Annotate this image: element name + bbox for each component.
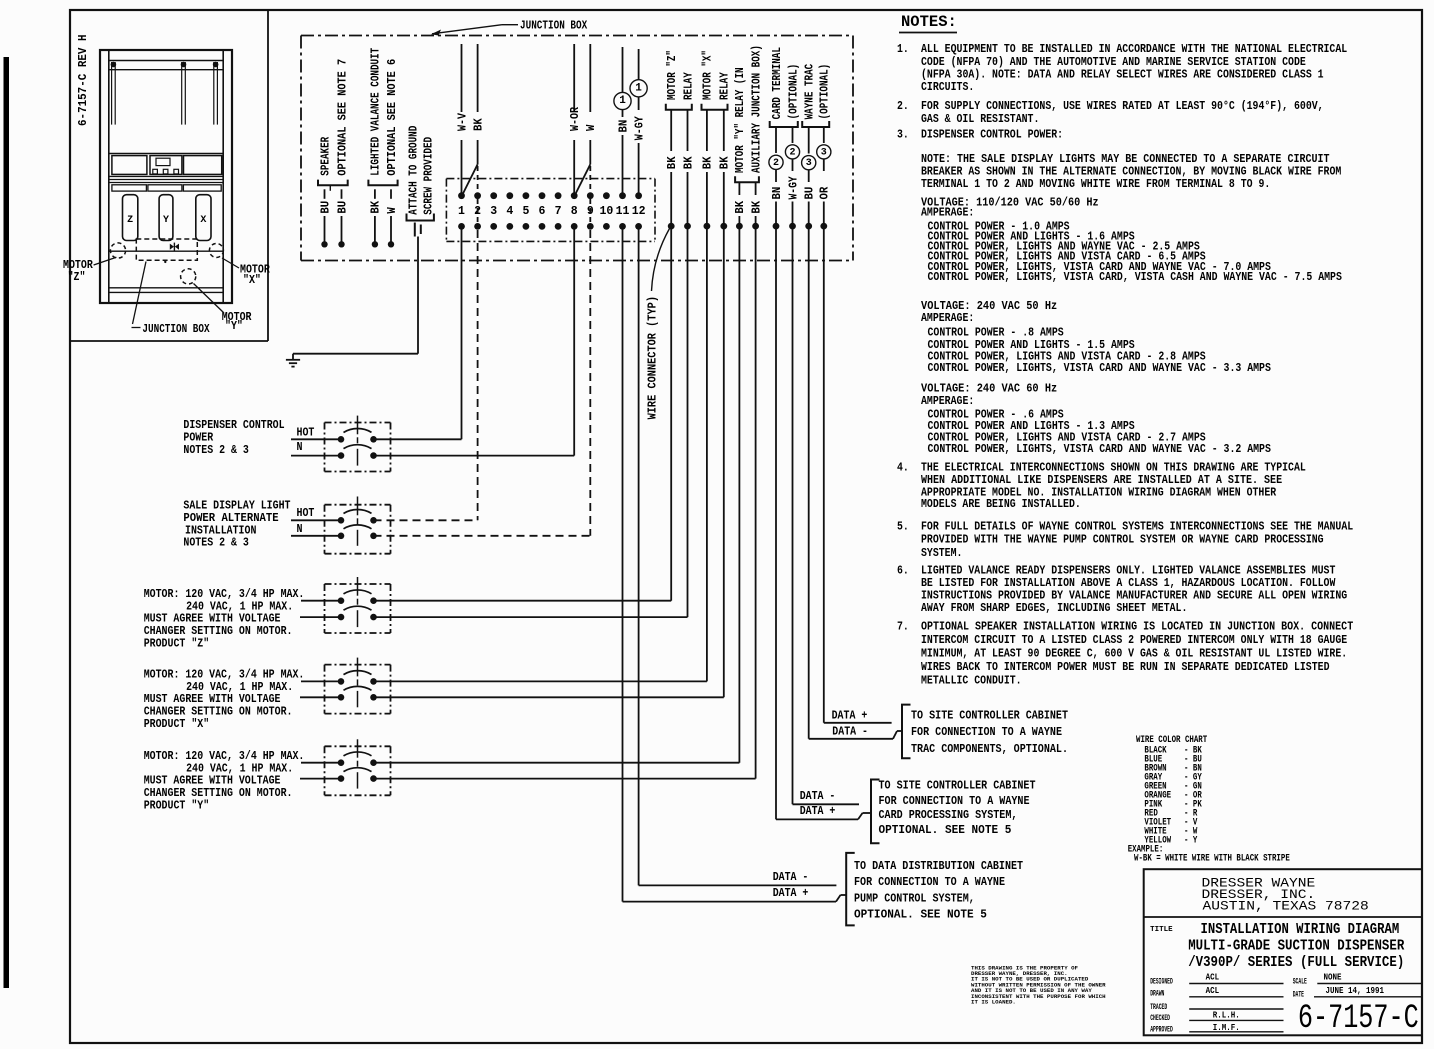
cabinet mid line bbox=[109, 250, 223, 252]
svg-text:CONTROL POWER - .8 AMPS: CONTROL POWER - .8 AMPS bbox=[928, 326, 1064, 339]
switch motor product Z bbox=[325, 583, 391, 585]
svg-text:I.M.F.: I.M.F. bbox=[1213, 1023, 1240, 1033]
wire motor X in 1 bbox=[301, 680, 341, 682]
terminal strip TB bbox=[446, 178, 655, 180]
svg-text:AUXILIARY JUNCTION BOX): AUXILIARY JUNCTION BOX) bbox=[750, 45, 763, 173]
svg-text:DATA -: DATA - bbox=[832, 726, 868, 739]
svg-text:IT IS LOANED.: IT IS LOANED. bbox=[971, 999, 1016, 1006]
svg-text:Y: Y bbox=[163, 215, 169, 226]
svg-text:6-7157-C: 6-7157-C bbox=[1298, 1000, 1419, 1038]
svg-text:MOTOR "X": MOTOR "X" bbox=[702, 50, 715, 100]
svg-text:240 VAC, 1 HP MAX.: 240 VAC, 1 HP MAX. bbox=[186, 681, 293, 694]
svg-text:BK: BK bbox=[750, 201, 763, 214]
hose hanger rods bbox=[111, 62, 113, 125]
svg-text:CONTROL POWER, LIGHTS, VISTA C: CONTROL POWER, LIGHTS, VISTA CARD, VISTA… bbox=[928, 271, 1342, 284]
svg-text:BE LISTED FOR INSTALLATION ABO: BE LISTED FOR INSTALLATION ABOVE A CLASS… bbox=[921, 577, 1335, 590]
wire W-GY to terminal 12 with tag 1 bbox=[638, 49, 640, 80]
svg-text:W-OR: W-OR bbox=[569, 107, 582, 131]
terminal 4 bbox=[506, 192, 513, 199]
svg-text:1: 1 bbox=[458, 205, 465, 218]
svg-text:BN: BN bbox=[617, 120, 630, 133]
wire ground bbox=[417, 237, 419, 354]
svg-text:INSTALLATION WIRING DIAGRAM: INSTALLATION WIRING DIAGRAM bbox=[1201, 922, 1400, 938]
svg-text:FOR SUPPLY CONNECTIONS, USE WI: FOR SUPPLY CONNECTIONS, USE WIRES RATED … bbox=[921, 100, 1324, 113]
svg-text:FOR CONNECTION TO A WAYNE: FOR CONNECTION TO A WAYNE bbox=[911, 725, 1062, 739]
switch sale display light bbox=[325, 504, 391, 506]
svg-text:/V390P/ SERIES (FULL SERVICE): /V390P/ SERIES (FULL SERVICE) bbox=[1188, 955, 1404, 971]
svg-text:DATA +: DATA + bbox=[773, 887, 809, 900]
svg-text:"Z": "Z" bbox=[68, 271, 86, 284]
svg-text:BK: BK bbox=[719, 156, 732, 169]
svg-text:ATTACH TO GROUND: ATTACH TO GROUND bbox=[407, 126, 420, 215]
svg-text:W-GY: W-GY bbox=[787, 176, 800, 199]
svg-text:VOLTAGE: 240 VAC 60 Hz: VOLTAGE: 240 VAC 60 Hz bbox=[921, 383, 1057, 396]
svg-text:MULTI-GRADE SUCTION DISPENSER: MULTI-GRADE SUCTION DISPENSER bbox=[1188, 939, 1404, 955]
wire BK motor Z relay 1 bbox=[670, 110, 672, 151]
switch motor product Y bbox=[325, 745, 391, 747]
svg-text:5: 5 bbox=[522, 205, 529, 218]
svg-text:MUST AGREE WITH VOLTAGE: MUST AGREE WITH VOLTAGE bbox=[144, 775, 281, 788]
svg-text:NONE: NONE bbox=[1324, 973, 1342, 983]
svg-text:INTERCOM CIRCUIT TO A LISTED C: INTERCOM CIRCUIT TO A LISTED CLASS 2 POW… bbox=[921, 634, 1347, 647]
svg-text:JUNCTION BOX: JUNCTION BOX bbox=[142, 323, 209, 336]
svg-text:MOTOR: MOTOR bbox=[63, 259, 93, 272]
terminal 7 bbox=[555, 192, 562, 199]
wire pump data minus terminal 12 bbox=[638, 226, 640, 885]
svg-text:WIRE COLOR CHART: WIRE COLOR CHART bbox=[1136, 734, 1207, 745]
wire trac data plus bbox=[823, 226, 825, 723]
wire alternate dashed terminal 9 bbox=[589, 166, 591, 192]
svg-text:6: 6 bbox=[539, 205, 546, 218]
wire dispenser hot in bbox=[291, 438, 341, 440]
wire terminal1 to dispenser hot bbox=[461, 226, 463, 439]
svg-text:SALE DISPLAY LIGHT: SALE DISPLAY LIGHT bbox=[183, 499, 290, 512]
wire BK to terminal 1 bbox=[477, 44, 479, 112]
svg-text:CIRCUITS.: CIRCUITS. bbox=[921, 81, 974, 94]
svg-text:DATE: DATE bbox=[1293, 991, 1304, 1000]
svg-text:ACL: ACL bbox=[1206, 973, 1220, 983]
wire motor X relay run 1 bbox=[706, 226, 708, 681]
wire BK motor Y relay 1 bbox=[738, 182, 740, 195]
svg-text:3: 3 bbox=[806, 158, 812, 169]
ground symbol bbox=[286, 359, 300, 361]
svg-text:DATA +: DATA + bbox=[800, 805, 836, 818]
svg-text:BK: BK bbox=[682, 156, 695, 169]
svg-text:(OPTIONAL): (OPTIONAL) bbox=[819, 64, 832, 120]
svg-text:2: 2 bbox=[789, 147, 795, 158]
svg-text:LIGHTED VALANCE CONDUIT: LIGHTED VALANCE CONDUIT bbox=[370, 48, 383, 176]
wire motor X in 2 bbox=[300, 696, 341, 698]
svg-text:MOTOR: 120 VAC, 3/4 HP MAX.: MOTOR: 120 VAC, 3/4 HP MAX. bbox=[144, 669, 305, 682]
svg-text:R.L.H.: R.L.H. bbox=[1213, 1011, 1240, 1021]
svg-text:TITLE: TITLE bbox=[1150, 926, 1173, 934]
svg-text:NOTE: THE SALE DISPLAY LIGHTS: NOTE: THE SALE DISPLAY LIGHTS MAY BE CON… bbox=[921, 153, 1330, 166]
svg-text:HOT: HOT bbox=[297, 507, 315, 520]
wire alternate dashed terminal 2 bbox=[477, 166, 479, 192]
svg-text:7.: 7. bbox=[897, 620, 909, 633]
wire motor Z in 2 bbox=[300, 616, 341, 618]
wire motor Z in 1 bbox=[301, 600, 341, 602]
terminal 6 bbox=[539, 192, 546, 199]
wire terminal8 to dispenser neutral bbox=[573, 226, 575, 455]
svg-text:W-V: W-V bbox=[456, 113, 469, 131]
svg-text:CHANGER SETTING ON MOTOR.: CHANGER SETTING ON MOTOR. bbox=[144, 625, 293, 638]
wire dispenser neutral in bbox=[291, 455, 341, 457]
svg-text:BK: BK bbox=[702, 156, 715, 169]
svg-text:INSTALLATION: INSTALLATION bbox=[185, 524, 256, 537]
wire BU wayne trac tag 3 bbox=[808, 127, 810, 154]
svg-text:Z: Z bbox=[127, 215, 133, 226]
wire motor Y in 2 bbox=[300, 778, 341, 780]
wire BN to terminal 11 with tag 1 bbox=[622, 47, 624, 92]
wire pump data plus terminal 11 bbox=[622, 226, 624, 901]
svg-text:INSTRUCTIONS PROVIDED BY VALAN: INSTRUCTIONS PROVIDED BY VALANCE MANUFAC… bbox=[921, 590, 1347, 603]
svg-text:1: 1 bbox=[635, 83, 642, 95]
svg-text:240 VAC, 1 HP MAX.: 240 VAC, 1 HP MAX. bbox=[186, 762, 293, 775]
svg-text:4.: 4. bbox=[897, 462, 909, 475]
svg-text:NOTES 2 & 3: NOTES 2 & 3 bbox=[183, 444, 249, 457]
svg-text:PRODUCT "Z": PRODUCT "Z" bbox=[144, 637, 210, 650]
svg-text:OPTIONAL SEE NOTE 7: OPTIONAL SEE NOTE 7 bbox=[336, 59, 349, 176]
wire BN card terminal tag 2 bbox=[775, 127, 777, 153]
dispenser detail box bbox=[267, 10, 269, 341]
svg-text:6.: 6. bbox=[897, 564, 909, 577]
svg-text:N: N bbox=[297, 441, 303, 454]
wire motor Y in 1 bbox=[301, 762, 341, 764]
svg-text:11: 11 bbox=[616, 205, 630, 218]
svg-text:MUST AGREE WITH VOLTAGE: MUST AGREE WITH VOLTAGE bbox=[144, 693, 281, 706]
svg-text:MOTOR "Y" RELAY (IN: MOTOR "Y" RELAY (IN bbox=[734, 67, 747, 173]
svg-text:JUNCTION BOX: JUNCTION BOX bbox=[520, 19, 588, 33]
svg-text:TO SITE CONTROLLER CABINET: TO SITE CONTROLLER CABINET bbox=[911, 708, 1068, 722]
terminal 9 bbox=[587, 192, 594, 199]
junction box dashed outline in cabinet bbox=[136, 239, 197, 260]
svg-text:GAS & OIL RESISTANT.: GAS & OIL RESISTANT. bbox=[921, 113, 1039, 126]
svg-text:5.: 5. bbox=[897, 520, 909, 533]
svg-text:MOTOR: 120 VAC, 3/4 HP MAX.: MOTOR: 120 VAC, 3/4 HP MAX. bbox=[144, 588, 305, 601]
svg-text:3: 3 bbox=[490, 205, 497, 218]
svg-text:PRODUCT "Y": PRODUCT "Y" bbox=[144, 800, 210, 813]
svg-text:RELAY: RELAY bbox=[682, 72, 695, 100]
svg-text:DATA -: DATA - bbox=[773, 871, 809, 884]
svg-text:SCREW PROVIDED: SCREW PROVIDED bbox=[423, 137, 436, 215]
svg-text:AWAY FROM SHARP EDGES, INCLUDI: AWAY FROM SHARP EDGES, INCLUDING SHEET M… bbox=[921, 602, 1187, 615]
svg-text:(OPTIONAL): (OPTIONAL) bbox=[787, 64, 800, 120]
svg-text:12: 12 bbox=[632, 205, 646, 218]
motor Y location circle bbox=[181, 269, 196, 284]
svg-text:BK: BK bbox=[734, 201, 747, 214]
svg-text:OPTIONAL SPEAKER INSTALLATION: OPTIONAL SPEAKER INSTALLATION WIRING IS … bbox=[921, 620, 1353, 633]
svg-text:CONTROL POWER, LIGHTS, VISTA C: CONTROL POWER, LIGHTS, VISTA CARD AND WA… bbox=[928, 362, 1271, 375]
grade selector Z bbox=[123, 195, 138, 241]
wire motor Z relay run 2 bbox=[687, 226, 689, 617]
svg-text:W-GY: W-GY bbox=[633, 116, 646, 140]
svg-text:OR: OR bbox=[819, 187, 832, 200]
wire BK motor X relay 1 bbox=[706, 110, 708, 151]
wire trac data minus bbox=[808, 226, 810, 739]
svg-text:7: 7 bbox=[555, 205, 562, 218]
wire OR wayne trac tag 3 bbox=[823, 127, 825, 143]
cabinet base lines bbox=[109, 287, 223, 289]
svg-text:3.: 3. bbox=[897, 129, 909, 142]
svg-text:BK: BK bbox=[666, 156, 679, 169]
svg-text:CONTROL POWER, LIGHTS, VISTA C: CONTROL POWER, LIGHTS, VISTA CARD AND WA… bbox=[928, 443, 1271, 456]
svg-text:8: 8 bbox=[571, 205, 578, 218]
svg-text:CHECKED: CHECKED bbox=[1150, 1014, 1170, 1023]
svg-text:APPROVED: APPROVED bbox=[1150, 1025, 1173, 1034]
wire W to terminal 8 bbox=[589, 44, 591, 112]
svg-text:- Y: - Y bbox=[1184, 834, 1198, 845]
wire sale neutral in bbox=[291, 535, 341, 537]
svg-text:FOR FULL DETAILS OF WAYNE CONT: FOR FULL DETAILS OF WAYNE CONTROL SYSTEM… bbox=[921, 520, 1353, 533]
svg-text:"X": "X" bbox=[243, 274, 261, 287]
switch dispenser control power bbox=[325, 422, 391, 424]
svg-text:AUSTIN, TEXAS 78728: AUSTIN, TEXAS 78728 bbox=[1203, 898, 1369, 913]
svg-text:PRODUCT "X": PRODUCT "X" bbox=[144, 718, 210, 731]
wire motor Y relay run 1 bbox=[738, 226, 740, 763]
wire W-OR to terminal 8 bbox=[573, 44, 575, 112]
wire card data plus bbox=[775, 226, 777, 819]
svg-text:CHANGER SETTING ON MOTOR.: CHANGER SETTING ON MOTOR. bbox=[144, 787, 293, 800]
svg-text:SYSTEM.: SYSTEM. bbox=[921, 547, 962, 560]
motor Z location circle bbox=[110, 243, 125, 258]
wire card data minus bbox=[792, 226, 794, 804]
svg-text:OPTIONAL SEE NOTE 6: OPTIONAL SEE NOTE 6 bbox=[386, 59, 399, 176]
svg-text:N: N bbox=[297, 523, 303, 536]
svg-text:SCALE: SCALE bbox=[1293, 978, 1307, 987]
display section bbox=[109, 153, 223, 155]
svg-text:ALL EQUIPMENT TO BE INSTALLED: ALL EQUIPMENT TO BE INSTALLED IN ACCORDA… bbox=[921, 43, 1347, 56]
svg-text:NOTES 2 & 3: NOTES 2 & 3 bbox=[183, 537, 249, 550]
svg-text:MOTOR: 120 VAC, 3/4 HP MAX.: MOTOR: 120 VAC, 3/4 HP MAX. bbox=[144, 750, 305, 763]
svg-text:4: 4 bbox=[506, 205, 513, 218]
svg-text:BN: BN bbox=[771, 187, 784, 200]
wire W-GY card terminal tag 2 bbox=[792, 127, 794, 143]
svg-text:RELAY: RELAY bbox=[719, 72, 732, 100]
terminal 10 bbox=[603, 192, 610, 199]
svg-text:BU: BU bbox=[336, 201, 349, 214]
wire motor Y relay run 2 bbox=[755, 226, 757, 779]
svg-text:W: W bbox=[386, 207, 399, 213]
terminal 5 bbox=[523, 192, 530, 199]
svg-text:POWER: POWER bbox=[183, 432, 213, 445]
svg-text:TERMINAL 1 TO 2 AND MOVING WHI: TERMINAL 1 TO 2 AND MOVING WHITE WIRE FR… bbox=[921, 178, 1270, 191]
svg-text:WIRE CONNECTOR (TYP): WIRE CONNECTOR (TYP) bbox=[646, 296, 659, 419]
svg-text:MOTOR "Z": MOTOR "Z" bbox=[666, 50, 679, 100]
svg-text:BK: BK bbox=[472, 118, 485, 131]
svg-text:THE ELECTRICAL INTERCONNECTION: THE ELECTRICAL INTERCONNECTIONS SHOWN ON… bbox=[921, 462, 1306, 475]
ground screw symbol bbox=[414, 223, 416, 237]
svg-text:TO SITE CONTROLLER CABINET: TO SITE CONTROLLER CABINET bbox=[879, 779, 1036, 793]
grade selector Y bbox=[159, 195, 173, 241]
svg-text:W-BK = WHITE WIRE WITH BLACK S: W-BK = WHITE WIRE WITH BLACK STRIPE bbox=[1134, 852, 1290, 863]
svg-text:WIRES BACK TO INTERCOM POWER M: WIRES BACK TO INTERCOM POWER MUST BE RUN… bbox=[921, 661, 1330, 674]
svg-text:LIGHTED VALANCE READY DISPENSE: LIGHTED VALANCE READY DISPENSERS ONLY. L… bbox=[921, 564, 1335, 577]
svg-text:BREAKER AS SHOWN IN THE ALTERN: BREAKER AS SHOWN IN THE ALTERNATE CONNEC… bbox=[921, 166, 1341, 179]
svg-text:CHANGER SETTING ON MOTOR.: CHANGER SETTING ON MOTOR. bbox=[144, 706, 293, 719]
terminal 12 bbox=[635, 192, 642, 199]
terminal 8 bbox=[571, 192, 578, 199]
title block bbox=[1144, 869, 1422, 1035]
svg-text:3: 3 bbox=[821, 147, 827, 158]
svg-text:BU: BU bbox=[804, 187, 817, 200]
wire BK motor Z relay 2 bbox=[687, 110, 689, 151]
svg-text:DISPENSER CONTROL: DISPENSER CONTROL bbox=[183, 419, 284, 432]
svg-text:AMPERAGE:: AMPERAGE: bbox=[921, 206, 974, 219]
svg-text:1.: 1. bbox=[897, 43, 909, 56]
svg-text:W: W bbox=[585, 125, 598, 131]
svg-text:AMPERAGE:: AMPERAGE: bbox=[921, 395, 974, 408]
svg-text:6-7157-C REV H: 6-7157-C REV H bbox=[77, 34, 90, 126]
terminal 11 bbox=[619, 192, 626, 199]
svg-text:BU: BU bbox=[319, 201, 332, 214]
wire dashed terminal9 to sale neutral bbox=[589, 230, 591, 536]
svg-text:240 VAC, 1 HP MAX.: 240 VAC, 1 HP MAX. bbox=[186, 600, 293, 613]
svg-text:(NFPA 30A). NOTE: DATA AND REL: (NFPA 30A). NOTE: DATA AND RELAY SELECT … bbox=[921, 69, 1324, 82]
svg-text:ACL: ACL bbox=[1206, 986, 1220, 996]
svg-text:CODE (NFPA 70) AND THE AUTOMOT: CODE (NFPA 70) AND THE AUTOMOTIVE AND MA… bbox=[921, 56, 1306, 69]
motor X location circle bbox=[209, 244, 223, 258]
wire BK motor Y relay 2 bbox=[755, 182, 757, 195]
svg-text:2.: 2. bbox=[897, 100, 909, 113]
svg-text:SPEAKER: SPEAKER bbox=[319, 137, 332, 176]
scan artifact black bar left edge bbox=[4, 57, 10, 988]
svg-text:2: 2 bbox=[773, 158, 779, 169]
svg-text:WHEN ADDITIONAL LIKE DISPENSER: WHEN ADDITIONAL LIKE DISPENSERS ARE INST… bbox=[921, 474, 1282, 487]
wire dashed terminal2 to sale hot bbox=[477, 230, 479, 520]
svg-text:WAYNE TRAC: WAYNE TRAC bbox=[804, 64, 817, 120]
wire sale hot in bbox=[291, 519, 341, 521]
svg-text:BK: BK bbox=[370, 201, 383, 214]
grade selector X bbox=[196, 195, 211, 241]
svg-text:1: 1 bbox=[619, 95, 626, 107]
svg-text:MUST AGREE WITH VOLTAGE: MUST AGREE WITH VOLTAGE bbox=[144, 613, 281, 626]
svg-text:"Y": "Y" bbox=[225, 320, 243, 333]
wire W-V to terminal 1 bbox=[461, 44, 463, 112]
svg-text:OPTIONAL. SEE NOTE 5: OPTIONAL. SEE NOTE 5 bbox=[854, 908, 987, 922]
svg-text:DISPENSER CONTROL POWER:: DISPENSER CONTROL POWER: bbox=[921, 129, 1063, 142]
trim strips bbox=[109, 179, 223, 181]
junction box boundary bbox=[301, 35, 853, 37]
svg-text:METALLIC CONDUIT.: METALLIC CONDUIT. bbox=[921, 674, 1022, 687]
svg-text:CARD TERMINAL: CARD TERMINAL bbox=[771, 47, 784, 119]
svg-text:OPTIONAL. SEE NOTE 5: OPTIONAL. SEE NOTE 5 bbox=[879, 823, 1012, 837]
svg-text:TRACED: TRACED bbox=[1150, 1003, 1167, 1012]
wire motor X relay run 2 bbox=[723, 226, 725, 697]
svg-text:X: X bbox=[200, 215, 206, 226]
terminal 2 bbox=[474, 192, 481, 199]
svg-text:DATA -: DATA - bbox=[800, 790, 836, 803]
svg-text:DESIGNED: DESIGNED bbox=[1150, 978, 1173, 987]
terminal 1 bbox=[458, 192, 465, 199]
svg-text:TO DATA DISTRIBUTION CABINET: TO DATA DISTRIBUTION CABINET bbox=[854, 859, 1023, 873]
wire motor Z relay run 1 bbox=[670, 226, 672, 601]
terminal 3 bbox=[490, 192, 497, 199]
svg-text:PUMP CONTROL SYSTEM,: PUMP CONTROL SYSTEM, bbox=[854, 891, 975, 905]
svg-text:10: 10 bbox=[599, 205, 613, 218]
svg-text:CARD PROCESSING SYSTEM,: CARD PROCESSING SYSTEM, bbox=[879, 808, 1018, 822]
svg-text:TRAC COMPONENTS, OPTIONAL.: TRAC COMPONENTS, OPTIONAL. bbox=[911, 742, 1068, 756]
svg-text:AMPERAGE:: AMPERAGE: bbox=[921, 312, 974, 325]
svg-text:PROVIDED WITH THE WAYNE PUMP C: PROVIDED WITH THE WAYNE PUMP CONTROL SYS… bbox=[921, 534, 1324, 547]
svg-text:HOT: HOT bbox=[297, 427, 315, 440]
svg-text:FOR CONNECTION TO A WAYNE: FOR CONNECTION TO A WAYNE bbox=[879, 794, 1030, 808]
svg-text:DRAWN: DRAWN bbox=[1150, 990, 1164, 999]
svg-text:POWER ALTERNATE: POWER ALTERNATE bbox=[183, 512, 278, 525]
dispenser cabinet outline bbox=[100, 50, 232, 303]
switch motor product X bbox=[325, 664, 391, 666]
cabinet top bar bbox=[109, 60, 223, 62]
svg-text:JUNE 14, 1991: JUNE 14, 1991 bbox=[1326, 986, 1385, 996]
conduit connector symbol bbox=[170, 244, 179, 250]
svg-text:MINIMUM, AT LEAST 90 DEGREE C,: MINIMUM, AT LEAST 90 DEGREE C, 600 V GAS… bbox=[921, 647, 1347, 660]
wire BK motor X relay 2 bbox=[723, 110, 725, 151]
svg-text:NOTES:: NOTES: bbox=[901, 13, 957, 31]
svg-text:DATA +: DATA + bbox=[832, 710, 868, 723]
svg-text:MODELS ARE BEING INSTALLED.: MODELS ARE BEING INSTALLED. bbox=[921, 498, 1081, 511]
svg-text:FOR CONNECTION TO A WAYNE: FOR CONNECTION TO A WAYNE bbox=[854, 875, 1005, 889]
